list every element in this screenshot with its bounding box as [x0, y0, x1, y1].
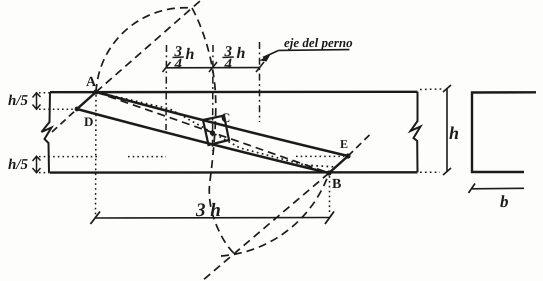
bar left face A-D	[77, 92, 96, 109]
svg-text:4: 4	[224, 57, 233, 73]
beam top edge	[50, 91, 418, 94]
beam left edge with break	[42, 92, 52, 172]
dashed line A to apex	[96, 1, 200, 92]
dashed extension below D	[52, 109, 77, 132]
h/5 bottom dim	[36, 157, 38, 173]
svg-text:b: b	[500, 192, 509, 211]
dotted y=93	[39, 92, 50, 94]
lower-right dashed arc to B	[221, 173, 329, 256]
svg-text:A: A	[86, 75, 97, 90]
dotted vertical below B	[329, 176, 331, 214]
labels	[84, 75, 348, 192]
h dim bottom tick	[443, 168, 451, 175]
svg-text:B: B	[332, 177, 341, 192]
svg-text:C: C	[221, 110, 230, 125]
svg-text:D: D	[84, 114, 93, 129]
3/4 h fraction 1	[174, 44, 195, 73]
svg-text:eje del perno: eje del perno	[284, 35, 353, 50]
dotted level y=156.5 segments	[39, 156, 100, 158]
svg-text:4: 4	[174, 57, 183, 73]
h/5 top dim	[36, 93, 38, 109]
point dots	[93, 89, 98, 94]
svg-text:3 h: 3 h	[195, 200, 221, 221]
svg-text:h: h	[237, 45, 246, 62]
eje del perno underline	[279, 49, 350, 52]
h/5 top arrow down	[33, 105, 41, 110]
3/4 h fraction 2	[224, 44, 246, 73]
dotted y=172.5 stub	[39, 172, 50, 174]
h dim top tick	[443, 85, 451, 92]
dashed extension below B	[202, 173, 329, 281]
tick mid	[209, 62, 217, 72]
eje del perno arrow shaft	[263, 50, 279, 57]
upper-left dashed arc A-apex	[96, 8, 192, 92]
dash-dot vertical x=166.5	[165, 45, 168, 130]
dotted connectors to h dim	[420, 88, 442, 91]
3h dimension line	[96, 217, 330, 220]
b dim left tick	[469, 184, 476, 194]
svg-text:h: h	[186, 46, 195, 63]
h/5 top arrow up	[33, 93, 41, 98]
dotted y=109 to D	[39, 108, 77, 110]
beam right edge with break	[411, 92, 421, 173]
svg-text:h: h	[449, 123, 459, 143]
arrowhead	[260, 54, 272, 62]
narrow ellipse arc apex to bottom	[192, 8, 236, 255]
tick left 3h	[91, 212, 101, 225]
svg-text:h/5: h/5	[8, 157, 29, 173]
tick right	[256, 62, 264, 72]
b dimension	[472, 187, 524, 190]
dashed diagonal A-B	[96, 92, 329, 173]
bar top edge A-E	[96, 92, 348, 156]
svg-text:h/5: h/5	[8, 93, 29, 109]
dash-dot vertical x=213	[212, 45, 215, 151]
dash-dot vertical x=259.5	[259, 42, 261, 122]
beam bottom edge	[50, 171, 418, 174]
tick right 3h	[325, 212, 334, 225]
h/5 bottom arrow down	[33, 168, 41, 173]
bar bottom edge D-B	[77, 109, 329, 173]
bar right face E-B	[329, 156, 348, 173]
bolt square at C	[203, 116, 229, 146]
fraction bar 2	[223, 56, 234, 59]
dashed extension above E	[348, 134, 371, 157]
dotted sag line A to EB face	[96, 92, 336, 167]
fraction bar 1	[173, 56, 184, 59]
tick left	[163, 62, 171, 72]
svg-text:E: E	[340, 137, 348, 151]
top dimension line 3/4h 3/4h	[167, 67, 260, 69]
h/5 bottom arrow up	[33, 156, 41, 161]
dotted vertical below A	[95, 95, 98, 215]
h dimension right of beam	[446, 89, 448, 173]
section rectangle	[472, 92, 536, 172]
